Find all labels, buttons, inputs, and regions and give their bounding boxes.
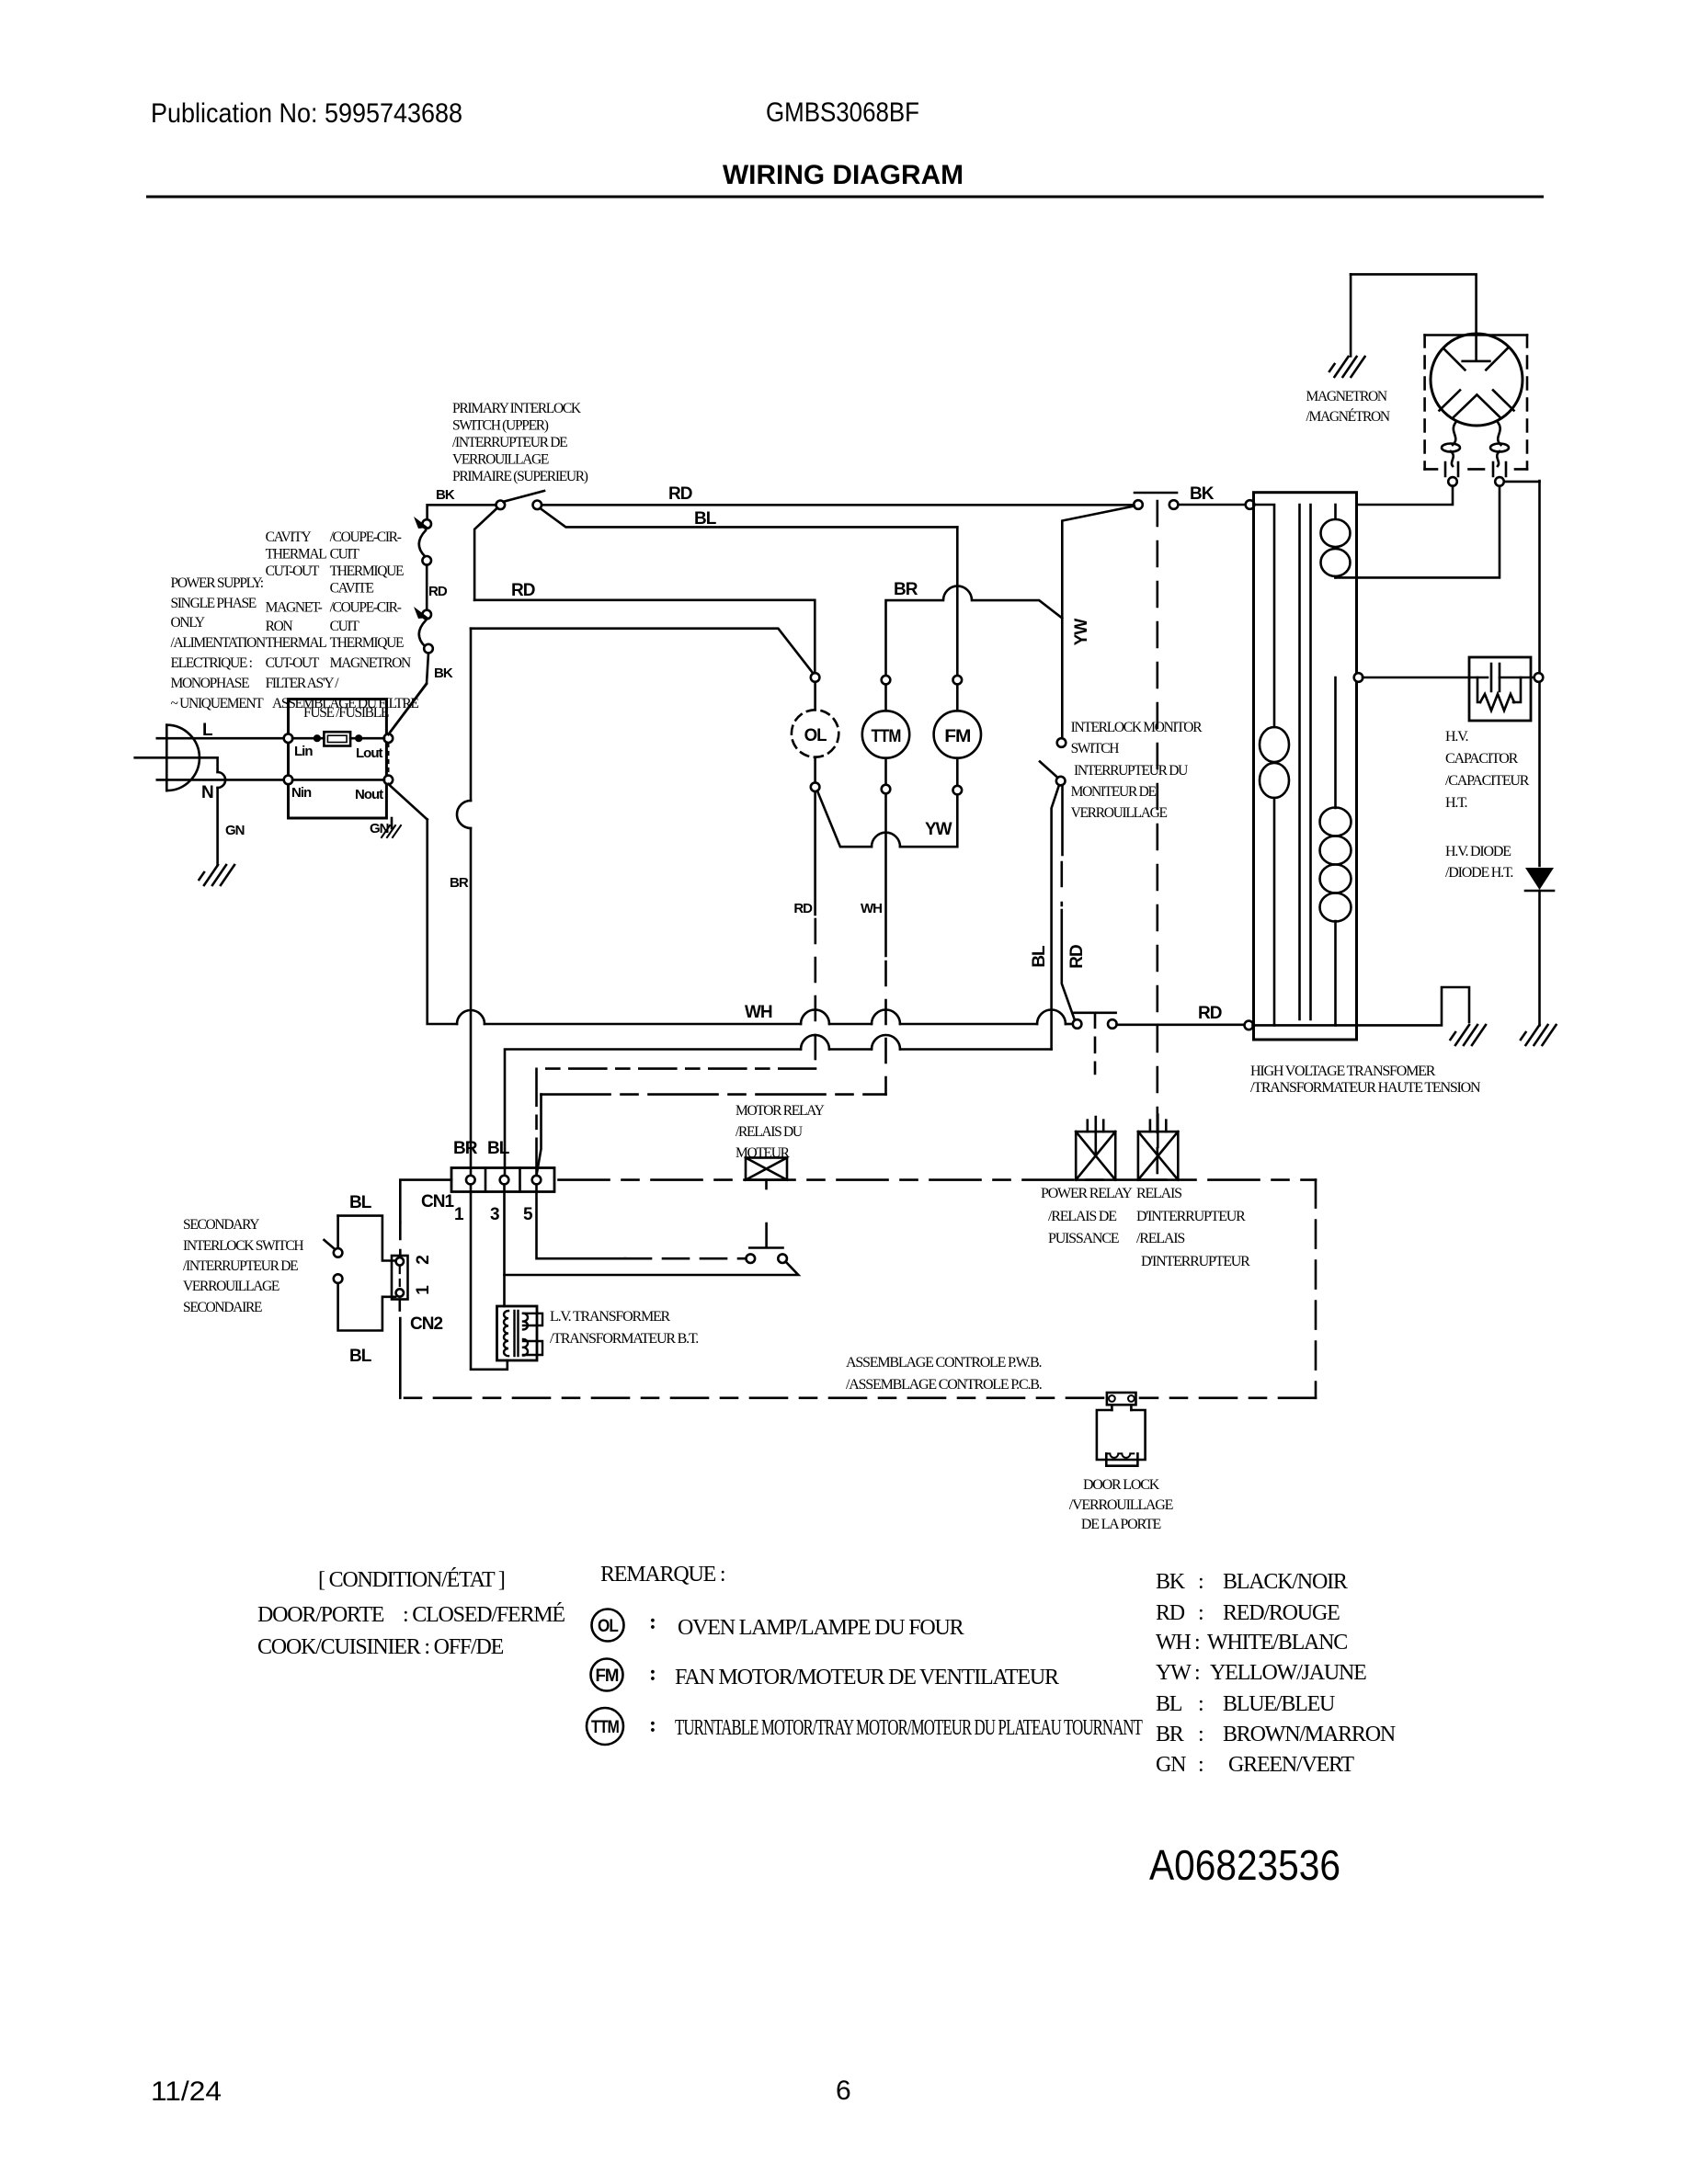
svg-text:BLUE/BLEU: BLUE/BLEU (1223, 1692, 1335, 1716)
svg-text:RD: RD (511, 581, 535, 600)
svg-text:/INTERRUPTEUR DE: /INTERRUPTEUR DE (452, 435, 567, 450)
svg-text:CUIT: CUIT (330, 547, 360, 563)
svg-text:L: L (202, 721, 213, 740)
svg-text:THERMIQUE: THERMIQUE (330, 563, 404, 579)
svg-text:BROWN/MARRON: BROWN/MARRON (1223, 1723, 1396, 1746)
svg-text:RD: RD (1156, 1601, 1185, 1625)
svg-text:BL: BL (1030, 945, 1049, 968)
svg-text:5: 5 (523, 1205, 533, 1224)
svg-text::: : (1194, 1631, 1199, 1655)
svg-text:YELLOW/JAUNE: YELLOW/JAUNE (1210, 1661, 1366, 1685)
svg-text:N: N (201, 783, 213, 802)
svg-text:TURNTABLE MOTOR/TRAY MOTOR/MOT: TURNTABLE MOTOR/TRAY MOTOR/MOTEUR DU PLA… (675, 1716, 1143, 1740)
svg-text:/MAGNÉTRON: /MAGNÉTRON (1306, 409, 1390, 425)
svg-text:1: 1 (414, 1285, 433, 1295)
svg-text:Lin: Lin (294, 744, 313, 759)
svg-text::: : (1198, 1692, 1203, 1716)
svg-text:/DIODE H.T.: /DIODE H.T. (1445, 865, 1512, 881)
svg-text:11/24: 11/24 (151, 2076, 222, 2107)
svg-text:BR: BR (894, 580, 918, 599)
svg-text:6: 6 (836, 2076, 851, 2106)
svg-text:BL: BL (349, 1193, 372, 1212)
svg-text:VERROUILLAGE: VERROUILLAGE (183, 1279, 279, 1294)
svg-text:RD: RD (793, 901, 813, 916)
svg-text:RD: RD (668, 484, 692, 504)
svg-text:BL: BL (487, 1139, 510, 1158)
svg-text:H.V. DIODE: H.V. DIODE (1445, 844, 1511, 859)
svg-text:MOTOR RELAY: MOTOR RELAY (736, 1103, 825, 1119)
svg-text:/VERROUILLAGE: /VERROUILLAGE (1069, 1497, 1173, 1513)
svg-text:/COUPE-CIR-: /COUPE-CIR- (330, 529, 402, 545)
svg-text:RD: RD (428, 584, 448, 599)
svg-text:RELAIS: RELAIS (1136, 1186, 1181, 1201)
svg-text:VERROUILLAGE: VERROUILLAGE (452, 452, 549, 468)
svg-text:MONITEUR DE: MONITEUR DE (1071, 784, 1157, 800)
svg-text:BR: BR (1156, 1723, 1184, 1746)
svg-text:/RELAIS DE: /RELAIS DE (1048, 1209, 1116, 1224)
svg-text:MAGNET-: MAGNET- (266, 600, 323, 616)
svg-text:SINGLE PHASE: SINGLE PHASE (171, 596, 257, 611)
svg-text::: : (649, 1662, 656, 1686)
svg-text:ONLY: ONLY (171, 615, 205, 631)
svg-text:MONOPHASE: MONOPHASE (171, 676, 250, 691)
svg-text:D'INTERRUPTEUR: D'INTERRUPTEUR (1141, 1254, 1250, 1269)
svg-text:CN1: CN1 (421, 1192, 454, 1211)
svg-text:/TRANSFORMATEUR HAUTE TENSION: /TRANSFORMATEUR HAUTE TENSION (1250, 1080, 1481, 1096)
svg-text:CUIT: CUIT (330, 619, 360, 634)
svg-text:/INTERRUPTEUR DE: /INTERRUPTEUR DE (183, 1258, 298, 1274)
svg-text::: : (1198, 1753, 1203, 1777)
svg-text:GREEN/VERT: GREEN/VERT (1228, 1753, 1354, 1777)
svg-text:INTERLOCK MONITOR: INTERLOCK MONITOR (1071, 720, 1203, 735)
svg-text:FM: FM (944, 727, 970, 746)
svg-text::: : (1198, 1570, 1203, 1594)
svg-text:Nin: Nin (291, 785, 312, 801)
svg-text:/RELAIS: /RELAIS (1136, 1231, 1184, 1246)
svg-text:THERMIQUE: THERMIQUE (330, 635, 404, 651)
svg-text:2: 2 (414, 1256, 433, 1265)
svg-text:SECONDARY: SECONDARY (183, 1217, 259, 1233)
svg-text:RON: RON (266, 619, 293, 634)
svg-text:WHITE/BLANC: WHITE/BLANC (1207, 1631, 1347, 1655)
svg-text:COOK/CUISINIER : OFF/DE: COOK/CUISINIER : OFF/DE (257, 1635, 504, 1659)
svg-text:PRIMAIRE (SUPERIEUR): PRIMAIRE (SUPERIEUR) (452, 469, 588, 484)
svg-text:FUSE /FUSIBLE: FUSE /FUSIBLE (303, 705, 389, 721)
svg-text:/TRANSFORMATEUR B.T.: /TRANSFORMATEUR B.T. (550, 1331, 698, 1347)
svg-text:OL: OL (804, 726, 827, 745)
svg-text:REMARQUE :: REMARQUE : (600, 1563, 724, 1587)
svg-text:THERMAL: THERMAL (266, 635, 327, 651)
svg-text:CAPACITOR: CAPACITOR (1445, 751, 1519, 767)
svg-text::: : (1198, 1601, 1203, 1625)
svg-text:/RELAIS DU: /RELAIS DU (736, 1124, 803, 1140)
svg-text:YW: YW (1156, 1661, 1192, 1685)
svg-text:PRIMARY INTERLOCK: PRIMARY INTERLOCK (452, 401, 582, 416)
svg-text:WH: WH (745, 1003, 772, 1022)
svg-text:BK: BK (434, 665, 453, 681)
svg-text:GN: GN (1156, 1753, 1186, 1777)
svg-text:RED/ROUGE: RED/ROUGE (1223, 1601, 1340, 1625)
svg-text:BL: BL (694, 509, 717, 529)
svg-text:OL: OL (598, 1617, 619, 1636)
svg-text:HIGH VOLTAGE TRANSFOMER: HIGH VOLTAGE TRANSFOMER (1250, 1064, 1436, 1079)
svg-text:Publication No: 5995743688: Publication No: 5995743688 (151, 98, 462, 129)
svg-text:BL: BL (349, 1347, 372, 1366)
svg-text:CAVITE: CAVITE (330, 581, 374, 597)
svg-text:WIRING DIAGRAM: WIRING DIAGRAM (723, 160, 964, 190)
svg-text:SECONDAIRE: SECONDAIRE (183, 1300, 262, 1315)
svg-text:/ASSEMBLAGE CONTROLE P.C.B.: /ASSEMBLAGE CONTROLE P.C.B. (846, 1377, 1042, 1393)
svg-text:BK: BK (436, 487, 455, 503)
svg-text:DOOR/PORTE: DOOR/PORTE (257, 1603, 384, 1627)
svg-text:Nout: Nout (355, 787, 383, 802)
svg-text:BR: BR (453, 1139, 478, 1158)
svg-text:/CAPACITEUR: /CAPACITEUR (1445, 773, 1530, 789)
svg-text:POWER RELAY: POWER RELAY (1041, 1186, 1133, 1201)
svg-text:FAN MOTOR/MOTEUR DE VENTILATEU: FAN MOTOR/MOTEUR DE VENTILATEUR (675, 1666, 1059, 1689)
svg-text:YW: YW (1072, 619, 1091, 646)
svg-text:SWITCH: SWITCH (1071, 741, 1120, 756)
svg-text:OVEN LAMP/LAMPE DU FOUR: OVEN LAMP/LAMPE DU FOUR (678, 1616, 964, 1640)
svg-text:MAGNETRON: MAGNETRON (1306, 389, 1387, 404)
svg-text:3: 3 (490, 1205, 499, 1224)
svg-text:DOOR LOCK: DOOR LOCK (1083, 1477, 1160, 1493)
svg-text:~ UNIQUEMENT: ~ UNIQUEMENT (171, 696, 265, 711)
svg-text:/ALIMENTATION: /ALIMENTATION (171, 635, 266, 651)
svg-text:H.V.: H.V. (1445, 729, 1468, 745)
svg-text:MAGNETRON: MAGNETRON (330, 655, 411, 671)
svg-text:ELECTRIQUE :: ELECTRIQUE : (171, 655, 253, 671)
svg-text:FILTER AS'Y /: FILTER AS'Y / (266, 676, 340, 691)
svg-text:L.V. TRANSFORMER: L.V. TRANSFORMER (550, 1309, 671, 1325)
svg-text:: CLOSED/FERMÉ: : CLOSED/FERMÉ (403, 1603, 565, 1627)
svg-text:CAVITY: CAVITY (266, 529, 312, 545)
svg-text::: : (1198, 1723, 1203, 1746)
svg-text:BK: BK (1156, 1570, 1186, 1594)
svg-text:RD: RD (1067, 945, 1087, 969)
svg-text:/COUPE-CIR-: /COUPE-CIR- (330, 600, 402, 616)
svg-text:THERMAL: THERMAL (266, 547, 327, 563)
svg-text:PUISSANCE: PUISSANCE (1048, 1231, 1119, 1246)
svg-text:CUT-OUT: CUT-OUT (266, 563, 320, 579)
svg-text:FM: FM (596, 1666, 619, 1686)
svg-text:D'INTERRUPTEUR: D'INTERRUPTEUR (1136, 1209, 1246, 1224)
svg-text:WH: WH (1156, 1631, 1191, 1655)
svg-text:H.T.: H.T. (1445, 795, 1467, 811)
svg-text:POWER SUPPLY:: POWER SUPPLY: (171, 575, 264, 591)
svg-text:SWITCH (UPPER): SWITCH (UPPER) (452, 418, 549, 434)
svg-text:GMBS3068BF: GMBS3068BF (766, 97, 919, 128)
svg-text:ASSEMBLAGE CONTROLE P.W.B.: ASSEMBLAGE CONTROLE P.W.B. (846, 1355, 1041, 1371)
svg-text:1: 1 (454, 1205, 464, 1224)
svg-text:CN2: CN2 (410, 1314, 442, 1334)
svg-text:BL: BL (1156, 1692, 1182, 1716)
svg-text:BR: BR (450, 875, 469, 891)
svg-text::: : (649, 1610, 656, 1634)
svg-text:VERROUILLAGE: VERROUILLAGE (1071, 805, 1168, 821)
svg-text:INTERLOCK SWITCH: INTERLOCK SWITCH (183, 1238, 303, 1254)
svg-text:GN: GN (225, 823, 245, 838)
svg-text::: : (649, 1713, 656, 1737)
svg-text:DE LA PORTE: DE LA PORTE (1081, 1517, 1161, 1532)
svg-text:TTM: TTM (591, 1718, 619, 1737)
svg-text:WH: WH (861, 901, 882, 916)
svg-text:MOTEUR: MOTEUR (736, 1145, 791, 1161)
svg-text:[ CONDITION/ÉTAT ]: [ CONDITION/ÉTAT ] (318, 1568, 505, 1592)
svg-text:BLACK/NOIR: BLACK/NOIR (1223, 1570, 1348, 1594)
svg-text:TTM: TTM (872, 727, 901, 746)
svg-text:Lout: Lout (356, 745, 382, 761)
svg-text:A06823536: A06823536 (1149, 1841, 1340, 1889)
svg-text:YW: YW (925, 820, 952, 839)
svg-text::: : (1194, 1661, 1199, 1685)
svg-text:INTERRUPTEUR DU: INTERRUPTEUR DU (1074, 763, 1188, 779)
svg-text:GN: GN (370, 821, 389, 836)
svg-text:CUT-OUT: CUT-OUT (266, 655, 320, 671)
svg-text:BK: BK (1190, 484, 1215, 504)
svg-text:RD: RD (1198, 1004, 1222, 1023)
